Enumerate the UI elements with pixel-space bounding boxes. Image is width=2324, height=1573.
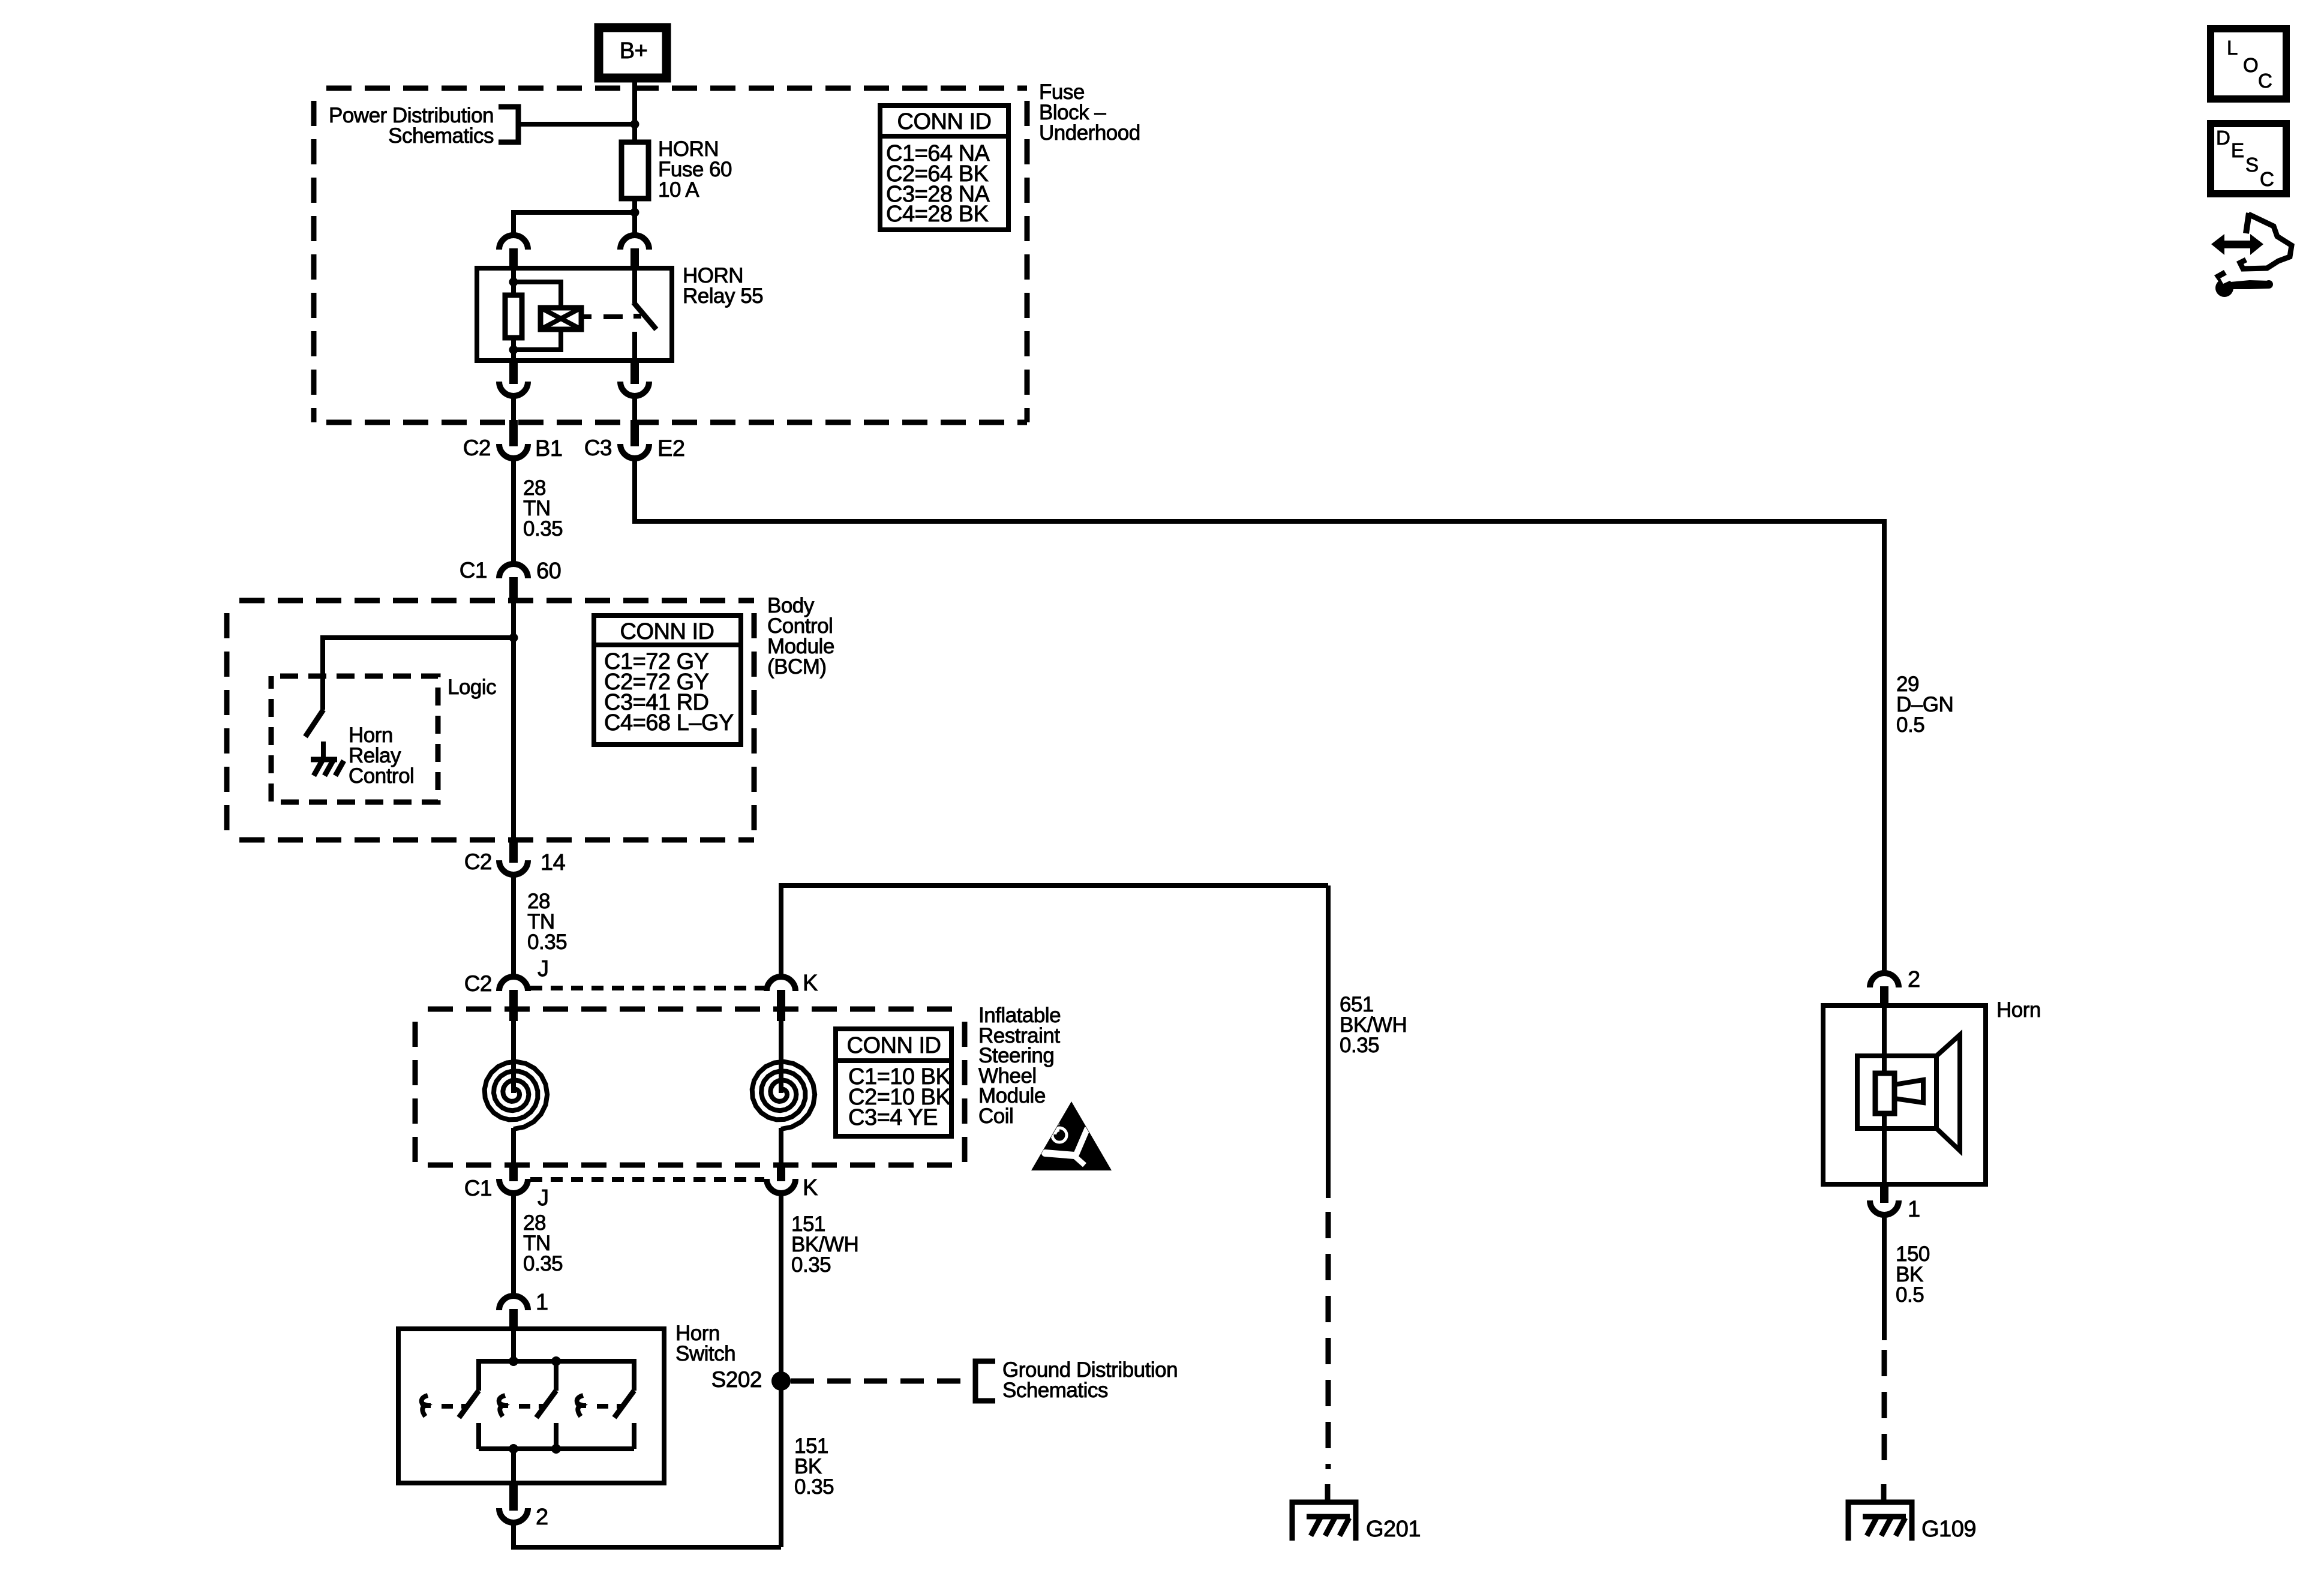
wire label 28 TN 0.35 — [523, 476, 563, 541]
node relay top junction — [509, 278, 518, 287]
ground (horn relay control) — [311, 742, 344, 776]
node — [551, 1356, 561, 1366]
clockspring coil left — [485, 1021, 548, 1165]
svg-text:10 A: 10 A — [658, 178, 699, 202]
connector fuse block to relay, left — [499, 235, 528, 268]
CONN ID table (coil) — [836, 1029, 951, 1136]
svg-text:C1: C1 — [460, 558, 487, 583]
svg-text:0.35: 0.35 — [523, 517, 563, 541]
connector C1 60 — [499, 564, 528, 602]
reference Ground Distribution Schematics — [975, 1358, 1178, 1402]
wire branch to relay coil side — [514, 212, 635, 234]
wire label 28 TN 0.35 — [527, 890, 567, 954]
svg-text:L: L — [2227, 37, 2238, 59]
wire E2 to horn (29 D-GN) — [635, 460, 1884, 972]
svg-text:CONN ID: CONN ID — [897, 109, 992, 134]
svg-text:2: 2 — [1908, 967, 1920, 992]
wire fuse to branch junction — [632, 199, 637, 234]
svg-text:60: 60 — [536, 559, 561, 584]
connector relay bottom left — [499, 361, 528, 396]
svg-text:(BCM): (BCM) — [767, 655, 827, 679]
svg-text:14: 14 — [541, 850, 566, 875]
svg-text:C3=4 YE: C3=4 YE — [848, 1105, 938, 1130]
wire label 151 BK 0.35 — [794, 1434, 834, 1499]
svg-text:C2: C2 — [464, 971, 492, 996]
wire 150 BK — [1882, 1217, 1887, 1340]
reference Power Distribution Schematics — [329, 104, 635, 148]
relay coil (X box) — [541, 308, 581, 329]
svg-text:Relay 55: Relay 55 — [683, 284, 763, 308]
connector C3 E2 — [620, 420, 649, 458]
label HORN Relay 55 — [683, 264, 763, 308]
connector horn switch pin 2 — [499, 1483, 528, 1523]
wire to logic switch — [323, 638, 514, 710]
svg-text:B+: B+ — [620, 38, 648, 64]
dashed connector line J-K — [530, 986, 764, 990]
svg-text:C4=68 L–GY: C4=68 L–GY — [604, 710, 734, 736]
relay actuator dashed link — [581, 314, 623, 319]
splice S202 — [771, 1371, 791, 1391]
dashed ground lead — [1326, 1212, 1331, 1469]
connector C2 14 — [499, 837, 528, 875]
wire label 29 D-GN 0.5 — [1896, 673, 1953, 737]
switch blade 2 — [499, 1391, 556, 1449]
wire 651 BK/WH — [1326, 885, 1331, 1198]
svg-text:CONN ID: CONN ID — [847, 1033, 941, 1058]
svg-text:C3: C3 — [584, 436, 612, 460]
svg-text:2: 2 — [536, 1505, 548, 1530]
DESC icon box — [2211, 124, 2286, 194]
svg-text:Schematics: Schematics — [1002, 1379, 1108, 1402]
connector fuse block to relay, right — [620, 235, 649, 268]
wire through BCM — [511, 602, 516, 840]
connector horn pin 1 — [1870, 1184, 1899, 1215]
connector K top — [767, 977, 795, 1021]
svg-text:K: K — [803, 1175, 818, 1200]
svg-text:G109: G109 — [1921, 1517, 1976, 1542]
svg-text:1: 1 — [536, 1290, 548, 1315]
label Fuse Block - Underhood — [1039, 80, 1140, 145]
svg-text:K: K — [803, 971, 818, 996]
svg-text:C1: C1 — [464, 1176, 492, 1200]
node junction logic tap — [509, 634, 518, 643]
power node B+ — [599, 28, 666, 78]
horn switch box — [398, 1329, 664, 1483]
svg-text:Switch: Switch — [675, 1342, 735, 1365]
svg-text:Coil: Coil — [978, 1104, 1013, 1128]
CONN ID table (fuse block) — [880, 106, 1008, 230]
wire label 151 BK/WH 0.35 — [791, 1212, 858, 1277]
node junction below fuse — [630, 208, 639, 217]
wire 28 TN to horn switch — [511, 1195, 516, 1294]
horn switch top bus — [479, 1329, 634, 1391]
CONN ID table (BCM) — [594, 616, 741, 745]
svg-text:CONN ID: CONN ID — [620, 619, 714, 644]
BCM dashed box — [227, 601, 754, 840]
horn box — [1823, 1005, 1986, 1184]
connector horn pin 2 — [1870, 973, 1899, 1007]
svg-text:D: D — [2216, 127, 2230, 149]
svg-text:C2: C2 — [463, 436, 491, 460]
node — [509, 1444, 518, 1454]
svg-text:0.5: 0.5 — [1896, 713, 1924, 737]
label Horn Switch — [675, 1322, 735, 1365]
wire K branch from BCM — [781, 885, 1328, 975]
ground G109 — [1848, 1502, 1912, 1541]
svg-text:Horn: Horn — [1996, 998, 2041, 1022]
svg-text:C2: C2 — [464, 849, 492, 874]
svg-text:B1: B1 — [535, 436, 562, 461]
node relay bottom junction — [509, 346, 518, 355]
connector C2 B1 — [499, 420, 528, 458]
resistor (relay) — [505, 295, 522, 338]
horn speaker symbol — [1857, 1035, 1960, 1151]
label Inflatable Restraint Steering Wheel Module Coil — [978, 1004, 1061, 1128]
wire switch return — [514, 1524, 781, 1547]
wire B+ to fuse — [632, 78, 637, 142]
svg-text:J: J — [538, 956, 549, 981]
svg-text:0.35: 0.35 — [527, 930, 567, 954]
clockspring coil right — [752, 1021, 815, 1165]
dashed reference to ground distribution — [791, 1379, 972, 1384]
wire label 651 BK/WH 0.35 — [1340, 993, 1407, 1057]
node — [551, 1444, 561, 1454]
node junction at fuse top — [630, 120, 639, 129]
connector C2 J — [499, 977, 528, 1021]
wire 151 BK/WH — [779, 1195, 783, 1547]
wire coil loop — [514, 282, 561, 350]
connector C1 J bottom — [499, 1163, 528, 1193]
relay switch — [633, 268, 656, 361]
wire — [511, 398, 516, 422]
wire label 150 BK 0.5 — [1896, 1242, 1930, 1307]
SIR warning triangle — [1031, 1101, 1112, 1170]
svg-text:C: C — [2258, 70, 2272, 92]
svg-text:0.35: 0.35 — [1340, 1034, 1379, 1057]
svg-text:O: O — [2243, 54, 2258, 76]
relay HORN Relay 55 box — [477, 268, 672, 361]
connector horn switch pin 1 — [499, 1296, 528, 1329]
wire label 28 TN 0.35 — [523, 1211, 563, 1275]
svg-text:S202: S202 — [711, 1367, 762, 1392]
ground G201 — [1292, 1502, 1356, 1541]
relay coil branch wire — [511, 268, 516, 361]
switch blade 3 — [577, 1391, 634, 1449]
LOC icon box — [2211, 29, 2286, 99]
dashed connector line J-K bottom — [530, 1177, 764, 1182]
label Horn Relay Control — [349, 724, 414, 788]
horn switch bottom bus — [479, 1449, 634, 1483]
svg-text:0.35: 0.35 — [523, 1252, 563, 1275]
svg-text:Schematics: Schematics — [388, 124, 494, 148]
dashed ground lead — [1882, 1350, 1887, 1469]
wire — [632, 398, 637, 422]
svg-text:0.35: 0.35 — [791, 1253, 831, 1277]
horn internal wire — [1882, 1005, 1887, 1184]
navigation icon (arrow, outline, wrench) — [2211, 213, 2292, 297]
logic switch blade — [305, 710, 323, 737]
svg-text:J: J — [538, 1185, 549, 1211]
connector K bottom — [767, 1163, 795, 1193]
SIR coil dashed box — [415, 1009, 965, 1165]
svg-text:Underhood: Underhood — [1039, 121, 1140, 145]
svg-text:C4=28 BK: C4=28 BK — [886, 202, 988, 227]
svg-text:G201: G201 — [1366, 1517, 1421, 1542]
svg-text:Control: Control — [349, 764, 414, 788]
svg-text:S: S — [2245, 154, 2259, 176]
fuse HORN Fuse 60 10 A — [621, 137, 732, 202]
connector relay bottom right — [620, 361, 649, 396]
svg-text:E2: E2 — [657, 436, 684, 461]
Logic dashed box — [271, 676, 438, 802]
node — [509, 1356, 518, 1366]
switch blade 1 — [422, 1391, 479, 1449]
svg-text:Logic: Logic — [448, 676, 496, 699]
wire 28 TN to coil — [511, 876, 516, 975]
wire 28 TN to BCM — [511, 460, 516, 563]
label Body Control Module (BCM) — [767, 594, 834, 679]
svg-text:0.5: 0.5 — [1896, 1283, 1924, 1307]
fuse block dashed box — [314, 88, 1027, 422]
svg-text:E: E — [2231, 139, 2244, 161]
svg-text:C: C — [2260, 168, 2274, 190]
svg-text:1: 1 — [1908, 1197, 1920, 1222]
svg-text:0.35: 0.35 — [794, 1475, 834, 1499]
